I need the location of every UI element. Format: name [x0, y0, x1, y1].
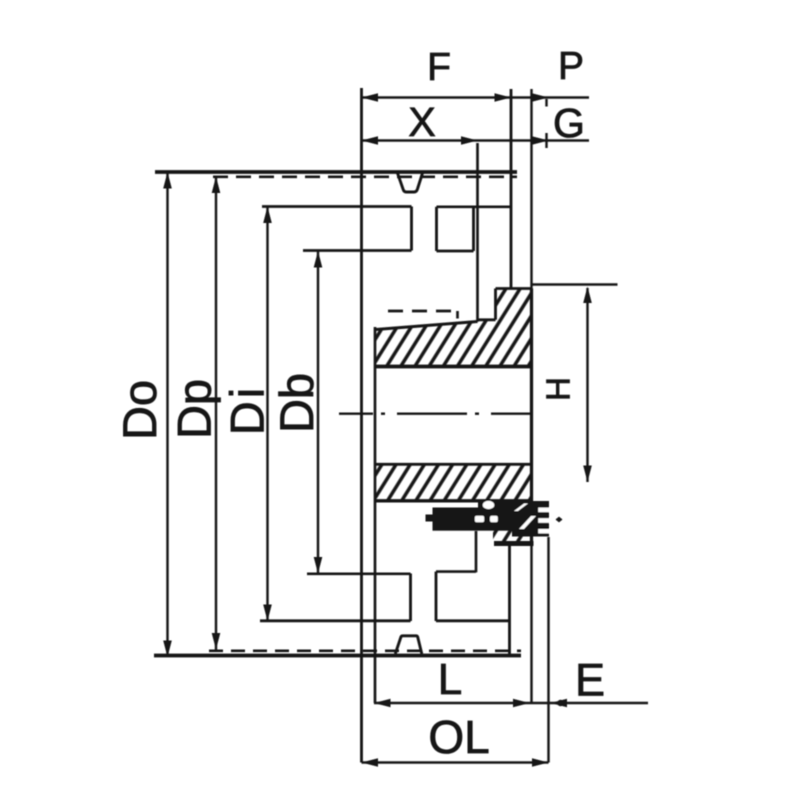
- svg-text:Di: Di: [221, 385, 274, 435]
- svg-text:L: L: [438, 655, 462, 704]
- svg-text:G: G: [553, 100, 585, 146]
- svg-text:P: P: [558, 45, 584, 88]
- svg-text:F: F: [427, 46, 451, 89]
- svg-text:H: H: [540, 377, 577, 401]
- svg-text:X: X: [408, 99, 435, 145]
- svg-text:Do: Do: [113, 380, 166, 440]
- svg-text:OL: OL: [428, 711, 489, 763]
- svg-text:Dp: Dp: [168, 379, 221, 439]
- svg-text:Db: Db: [270, 373, 323, 433]
- svg-text:E: E: [575, 654, 605, 705]
